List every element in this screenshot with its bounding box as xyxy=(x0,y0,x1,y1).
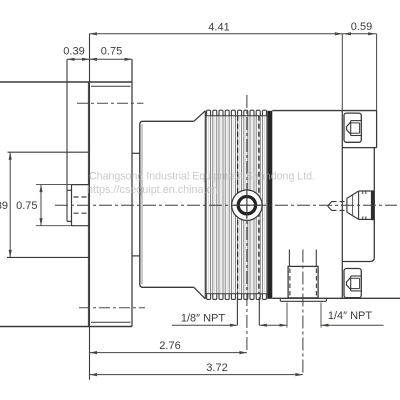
svg-text:https://csequipt.en.china.cn: https://csequipt.en.china.cn xyxy=(87,184,218,196)
svg-text:0.59: 0.59 xyxy=(351,21,372,33)
svg-text:3.72: 3.72 xyxy=(206,362,227,374)
svg-text:1.89: 1.89 xyxy=(0,200,8,212)
svg-text:Changsong Industrial Equipment: Changsong Industrial Equipment Shandong … xyxy=(89,171,315,183)
svg-text:0.39: 0.39 xyxy=(63,46,84,58)
svg-text:0.75: 0.75 xyxy=(101,46,122,58)
svg-text:0.75: 0.75 xyxy=(16,200,37,212)
svg-text:2.76: 2.76 xyxy=(159,340,180,352)
svg-text:4.41: 4.41 xyxy=(208,22,229,34)
svg-text:1/4″ NPT: 1/4″ NPT xyxy=(328,310,373,322)
svg-text:1/8″ NPT: 1/8″ NPT xyxy=(181,313,226,325)
